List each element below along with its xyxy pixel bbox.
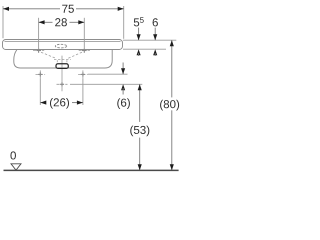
tap hole cross left [33, 48, 44, 53]
dimension (6) [117, 63, 130, 109]
extension line bolt height right [88, 73, 128, 75]
overflow oval (dashed) [55, 44, 66, 48]
dimension (80) [160, 40, 179, 170]
basin rim inner top line [5, 41, 121, 43]
extension line left bolt down [39, 78, 41, 105]
dimension 6 [153, 18, 158, 56]
drain flange (bold) [56, 64, 68, 69]
dimension 75 [3, 5, 124, 13]
tap hole cross right [79, 48, 90, 53]
dimension (53) [130, 84, 149, 170]
hidden drain dashes: vertical left [56, 60, 58, 63]
datum triangle [11, 164, 21, 170]
extension line rim bottom right [123, 48, 166, 50]
dimension 5.5 [134, 17, 144, 56]
dimension 28 [39, 18, 85, 26]
extension line rim top right [123, 39, 176, 41]
drain centre line [61, 56, 63, 92]
datum 0 label [10, 151, 16, 159]
extension line left of 28 [38, 18, 40, 48]
bolt cross left [36, 70, 46, 78]
floor line [4, 169, 179, 171]
dimension (26) [40, 98, 83, 109]
hidden drain dashes: vertical right [66, 60, 68, 63]
extension line right of 28 [83, 18, 85, 48]
hidden drain dashes: right diagonal [68, 52, 83, 58]
extension line right bolt down [82, 78, 84, 105]
basin bowl [14, 50, 112, 68]
extension line siphon height [70, 83, 142, 85]
extension line right of 75 [123, 6, 125, 39]
hidden drain dashes: left diagonal [41, 52, 57, 58]
extension line left of 75 [2, 6, 4, 38]
bolt cross right [78, 70, 88, 78]
siphon cross [57, 82, 68, 86]
hidden drain dashes: horizontal [54, 59, 71, 61]
basin rim outer [3, 40, 123, 50]
